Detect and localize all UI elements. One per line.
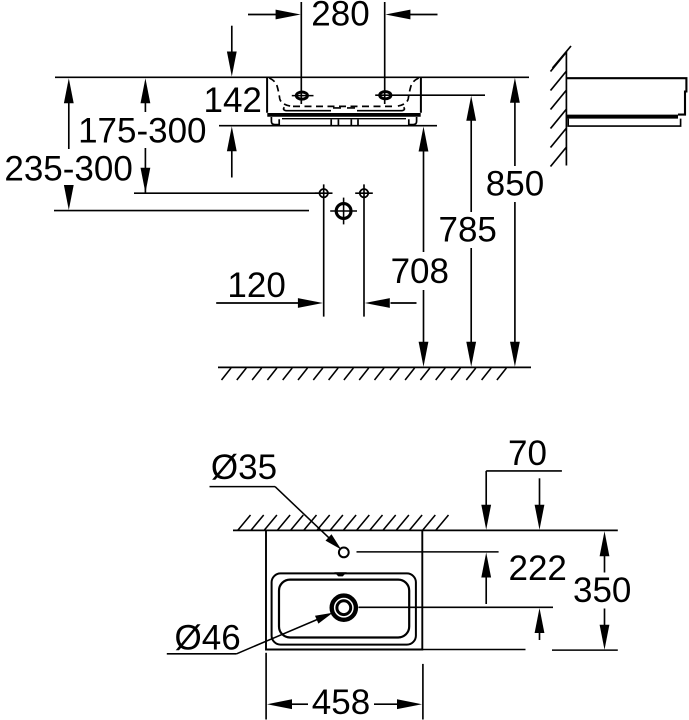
dimension 222 arrows <box>535 478 545 640</box>
svg-text:120: 120 <box>227 266 285 305</box>
floor line <box>218 366 531 368</box>
basin front edge reference line <box>422 649 618 652</box>
svg-text:Ø35: Ø35 <box>211 448 277 487</box>
svg-text:142: 142 <box>203 81 261 120</box>
basin inner wall right (dashed) <box>396 78 419 106</box>
drain hole plan (O46) <box>332 596 356 620</box>
svg-text:222: 222 <box>508 549 566 588</box>
label O35 leader line <box>210 487 342 550</box>
faucet hole right (front view) <box>380 92 391 99</box>
tap hole centre reference line <box>357 551 499 553</box>
svg-text:280: 280 <box>311 0 369 34</box>
235-300 reference line to mixer hole <box>54 210 309 212</box>
label O46 text <box>175 618 241 657</box>
basin underside thin line <box>282 118 406 120</box>
dimension 350 text <box>573 571 631 610</box>
basin front apron left edge <box>284 107 331 111</box>
dimension 280 line+arrows <box>248 10 438 20</box>
side view basin profile <box>566 78 686 114</box>
basin bottom fixing tabs <box>331 120 358 126</box>
dimension 458 text <box>312 683 370 720</box>
overflow slot <box>334 572 346 576</box>
faucet hole right centre line / 785 reference line <box>375 94 485 96</box>
side view mounting shelf <box>568 119 680 127</box>
dimension 142 text <box>203 81 261 120</box>
plan view basin outline <box>266 530 422 649</box>
svg-text:708: 708 <box>391 252 449 291</box>
basin foot right <box>409 117 417 125</box>
basin inner wall left (dashed) <box>269 78 292 106</box>
dimension 708 line+arrows <box>419 127 429 367</box>
dimension 70 bracket and arrows <box>481 471 562 604</box>
dimension 280 text <box>311 0 369 34</box>
dimension 350 line+arrows <box>600 531 610 649</box>
drain centre reference line <box>359 606 554 608</box>
plan view bowl outer edge <box>272 573 416 644</box>
basin apron centre dashes <box>333 107 355 109</box>
svg-text:Ø46: Ø46 <box>175 618 241 657</box>
extension line right faucet hole (280 dim) <box>384 2 386 104</box>
dimension 222 text <box>508 549 566 588</box>
dimension 235-300 text <box>4 149 132 188</box>
dimension 458 line+arrows <box>267 699 422 709</box>
basin foot left <box>271 117 279 125</box>
side view wall line <box>565 52 567 166</box>
svg-text:175-300: 175-300 <box>78 112 206 151</box>
bottom reference line (142 end / 708 start) <box>219 125 437 127</box>
dimension 850 text <box>486 165 544 204</box>
svg-text:350: 350 <box>573 571 631 610</box>
tap hole plan (O35) <box>339 548 349 558</box>
dimension 142 arrows <box>227 26 237 178</box>
wall reference top line <box>55 76 529 78</box>
175-300 reference line to fixing holes <box>134 192 319 194</box>
svg-text:235-300: 235-300 <box>4 149 132 188</box>
faucet hole left (front view) <box>292 92 314 99</box>
fixing hole cross right <box>355 184 373 316</box>
dimension 458 extension lines <box>266 653 423 720</box>
side view rim thick band <box>567 115 678 119</box>
extension line left faucet hole (280 dim) <box>300 2 302 104</box>
label O46 leader line <box>167 613 333 654</box>
dimension 235-300 line+arrows <box>64 78 74 210</box>
side view wall hatching <box>551 46 572 167</box>
basin inner bottom line (dashed) <box>293 105 395 107</box>
fixing hole cross left <box>315 184 333 316</box>
mixer mounting hole (large cross circle) <box>330 198 357 225</box>
svg-text:458: 458 <box>312 683 370 720</box>
plan view wall line <box>233 529 618 531</box>
basin front apron right edge <box>357 107 404 111</box>
dimension 120 line+arrows <box>216 298 416 308</box>
plan view wall hatching <box>238 515 449 530</box>
plan view bowl inner edge <box>279 580 409 638</box>
dimension 70 text <box>508 434 547 473</box>
dimension 785 line+arrows <box>466 96 476 367</box>
dimension 175-300 line+arrows <box>141 78 151 193</box>
basin front rim thick bottom band <box>267 113 420 117</box>
dimension 850 line+arrows <box>510 78 520 367</box>
floor hatching <box>222 368 507 380</box>
dimension 785 text <box>438 211 496 250</box>
svg-text:785: 785 <box>438 211 496 250</box>
svg-text:70: 70 <box>508 434 547 473</box>
label O35 text <box>211 448 277 487</box>
basin front view outline <box>267 77 421 113</box>
dimension 120 text <box>227 266 285 305</box>
dimension 175-300 text <box>78 112 206 151</box>
svg-text:850: 850 <box>486 165 544 204</box>
dimension 708 text <box>391 252 449 291</box>
